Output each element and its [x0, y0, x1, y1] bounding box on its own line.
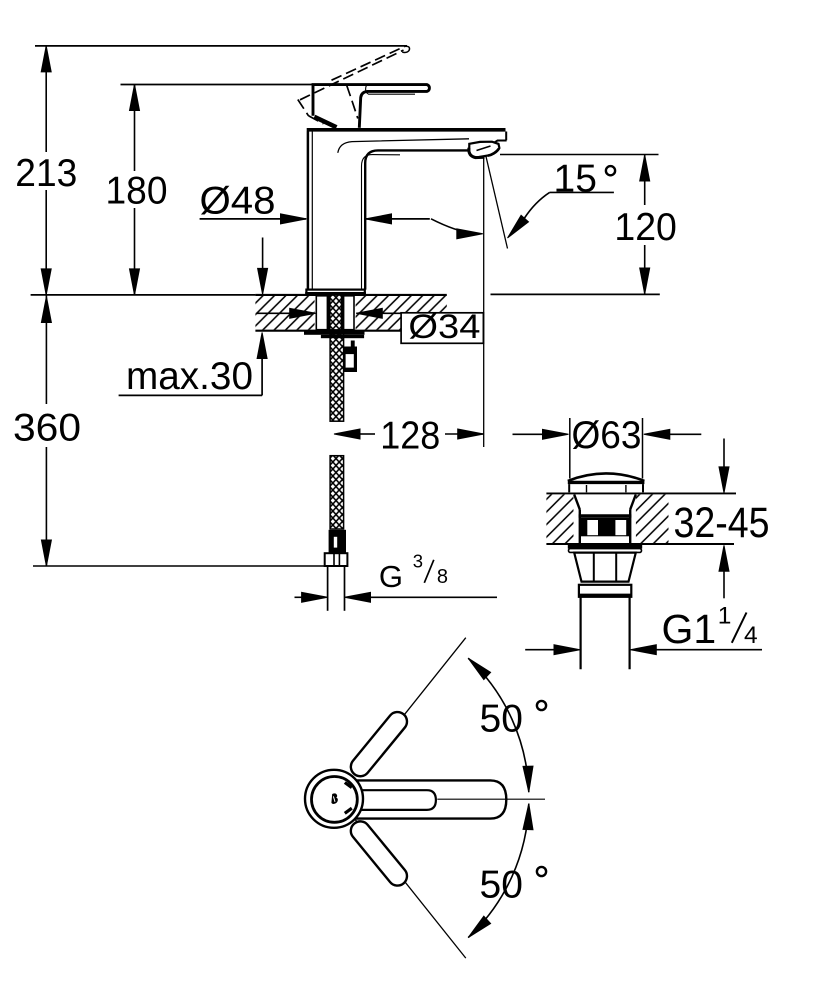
svg-text:213: 213	[15, 152, 77, 195]
svg-text:G1: G1	[662, 606, 717, 652]
svg-text:Ø63: Ø63	[572, 414, 642, 457]
svg-text:360: 360	[13, 407, 81, 450]
svg-text:3: 3	[413, 550, 423, 571]
svg-text:50: 50	[480, 698, 523, 741]
svg-text:120: 120	[614, 206, 677, 249]
svg-text:32-45: 32-45	[674, 499, 770, 547]
svg-text:180: 180	[106, 170, 168, 213]
svg-text:8: 8	[437, 566, 448, 588]
svg-text:4: 4	[744, 622, 758, 649]
svg-text:128: 128	[380, 415, 440, 458]
svg-text:Ø34: Ø34	[408, 308, 480, 346]
svg-text:15: 15	[554, 158, 597, 201]
svg-text:50: 50	[480, 864, 523, 907]
svg-text:1: 1	[718, 602, 732, 629]
svg-text:max.30: max.30	[126, 355, 253, 398]
svg-text:Ø48: Ø48	[200, 180, 276, 223]
svg-text:G: G	[379, 559, 403, 594]
